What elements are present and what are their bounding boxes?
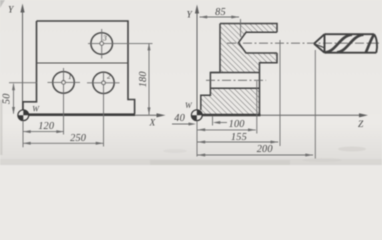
dim 160 [148, 44, 150, 115]
milling cutter outline (cone tip + cylinder body) [314, 34, 377, 53]
hatch: upper block section [220, 24, 277, 73]
hole 2 [93, 72, 114, 93]
dim 120 [23, 131, 64, 133]
svg-text:100: 100 [229, 119, 246, 130]
svg-text:180: 180 [138, 71, 149, 88]
svg-text:40: 40 [174, 113, 185, 124]
svg-text:120: 120 [38, 121, 55, 132]
part outline (right view) [201, 24, 277, 115]
dim 250 [23, 142, 103, 144]
origin W (right view) [185, 101, 202, 120]
dim 100 [198, 129, 256, 131]
ext below origin [22, 122, 24, 148]
hole 3 [91, 33, 113, 55]
dim 85 [200, 16, 240, 18]
svg-text:50: 50 [1, 93, 12, 104]
svg-text:200: 200 [257, 144, 274, 155]
centerline bore/cutter [227, 42, 379, 44]
svg-text:2: 2 [107, 72, 111, 81]
axis Y (right view) [196, 7, 198, 110]
svg-text:W: W [185, 101, 193, 110]
dim 200 [198, 154, 314, 156]
plate mid edge [37, 62, 129, 64]
svg-text:155: 155 [231, 132, 247, 143]
cutter helical flutes [326, 34, 375, 52]
svg-text:1: 1 [68, 72, 72, 81]
plate bottom edge (thick, on axis) [23, 113, 135, 116]
svg-text:85: 85 [215, 7, 226, 18]
cutter cutting lip [314, 44, 325, 48]
scan artifacts [0, 159, 382, 165]
hole 1 [53, 72, 75, 94]
part bottom edge thick [197, 114, 261, 117]
dim 50 (left) [9, 83, 37, 114]
origin W (left view) [18, 104, 40, 120]
axis Y (left view) [22, 6, 24, 110]
svg-text:250: 250 [70, 133, 87, 144]
dim 155 [198, 141, 279, 143]
plate outline [23, 21, 135, 114]
axis Z [202, 114, 364, 116]
svg-text:Z: Z [358, 120, 364, 130]
axis X (left view) [29, 114, 161, 116]
centerline hole band [206, 79, 266, 81]
common left ext [196, 121, 198, 157]
svg-text:3: 3 [102, 34, 107, 43]
hatch: base block section [201, 88, 260, 114]
svg-text:W: W [32, 104, 40, 113]
svg-text:X: X [149, 119, 157, 129]
